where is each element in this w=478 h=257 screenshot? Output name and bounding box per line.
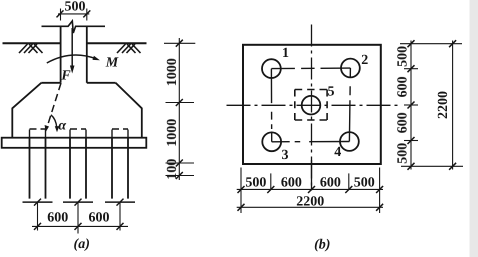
svg-text:500: 500	[65, 0, 86, 15]
svg-text:2200: 2200	[296, 194, 324, 209]
pile circle 1	[262, 59, 281, 78]
pile cap trapezoid top edge left segment	[41, 82, 60, 84]
pile 1 break slash	[34, 199, 41, 206]
pile 2 break slash	[75, 199, 82, 206]
svg-text:500: 500	[396, 143, 411, 164]
svg-text:500: 500	[396, 46, 411, 67]
ground line left	[3, 42, 61, 44]
svg-text:F: F	[60, 69, 71, 84]
vertical centerline	[311, 25, 313, 191]
ext line ground level	[164, 42, 195, 44]
bottom extension line	[401, 165, 463, 167]
right dim line 1	[410, 41, 412, 170]
pile cap trapezoid top edge right segment	[87, 82, 116, 84]
tick y102.5	[176, 99, 183, 106]
ground hatch right	[117, 44, 141, 53]
connector left (circle1 to circle3)	[270, 69, 272, 142]
extension line pile 3 center	[119, 202, 121, 230]
tick y42	[176, 40, 183, 47]
stub ext y68.7	[404, 68, 418, 70]
angle alpha arc	[51, 115, 57, 130]
svg-text:500: 500	[245, 175, 266, 190]
pile 2 bottom break line	[63, 201, 93, 203]
ground line right	[87, 42, 147, 44]
right dim line 2	[452, 41, 454, 170]
connector bottom (circle3 to circle4)	[272, 141, 350, 143]
ticks right dim line 1	[408, 40, 415, 47]
force F line	[71, 28, 73, 67]
svg-text:2: 2	[361, 53, 368, 68]
cap base slab	[2, 138, 147, 148]
angle alpha arc arrowhead	[55, 126, 60, 132]
tick pile2	[75, 223, 82, 230]
svg-text:500: 500	[354, 175, 375, 190]
column right edge	[86, 26, 88, 83]
connector right (circle2 to circle4)	[349, 68, 350, 142]
dim line 2 (b bottom 2200)	[237, 206, 383, 208]
moment M arc	[47, 55, 96, 63]
tick pile1	[34, 223, 41, 230]
tick y163	[176, 160, 183, 167]
stub ext y140.5	[404, 140, 418, 142]
svg-text:1000: 1000	[165, 58, 180, 86]
inner extension stub left	[270, 173, 272, 189]
connector top (circle1 to circle2)	[271, 67, 350, 70]
svg-text:100: 100	[165, 159, 180, 180]
horizontal centerline	[227, 104, 399, 106]
ticks right dim line 2	[449, 40, 456, 47]
pile 2 shaft	[70, 138, 86, 199]
svg-text:5: 5	[328, 84, 335, 99]
tick right of 500 dim	[83, 10, 90, 17]
svg-text:600: 600	[320, 175, 341, 190]
dim line 1 (b bottom)	[237, 188, 383, 190]
embedded pile head 1 dashed	[30, 129, 46, 138]
ext line slab	[166, 162, 195, 164]
pile 1 bottom break line	[23, 201, 53, 203]
pile circle 4	[340, 132, 359, 151]
moment M arrowhead	[93, 56, 100, 61]
pile 3 bottom break line	[105, 201, 135, 203]
dashed square around pile 5	[295, 90, 327, 121]
ticks dim line 1	[238, 186, 245, 193]
embedded pile head 2 dashed	[70, 129, 86, 138]
right outer extension	[379, 168, 381, 214]
pile 3 shaft	[112, 138, 128, 199]
svg-text:600: 600	[396, 76, 411, 97]
vertical centerline solid extension to dim line	[311, 160, 313, 190]
load spread dashed line	[47, 83, 61, 129]
column break line with zigzag	[42, 21, 106, 33]
pile 3 break slash	[117, 199, 124, 206]
bottom dims (b): left outer extension	[240, 168, 242, 214]
svg-text:3: 3	[282, 148, 289, 163]
svg-text:1: 1	[282, 46, 289, 61]
svg-text:4: 4	[334, 145, 341, 160]
svg-text:(a): (a)	[74, 237, 90, 252]
pile cap left slope and side	[12, 83, 41, 138]
load spread arrowhead	[45, 125, 49, 132]
bottom dimension line (a)	[32, 225, 128, 227]
pile cap right slope and side	[116, 83, 142, 138]
svg-text:M: M	[105, 56, 119, 71]
plan cap outline	[243, 45, 381, 164]
tick left of 500 dim	[57, 10, 64, 17]
right dim chain (a): vertical line	[178, 38, 180, 180]
svg-text:600: 600	[281, 175, 302, 190]
scan edge gray band	[470, 0, 478, 257]
force F arrowhead	[70, 66, 75, 74]
dimension line 500 (a)	[58, 13, 89, 15]
extension stub left	[60, 9, 62, 21]
stub ext y105	[404, 104, 418, 106]
embedded pile head 3 dashed	[112, 129, 128, 138]
svg-text:1000: 1000	[165, 119, 180, 147]
svg-text:600: 600	[89, 211, 110, 226]
column left edge	[60, 26, 62, 83]
svg-text:(b): (b)	[314, 237, 330, 252]
pile circle 2	[341, 59, 360, 78]
ext line mid	[166, 102, 195, 104]
extension line pile 2 center	[77, 202, 79, 233]
extension line pile 1 center	[37, 202, 39, 230]
pile circle 3	[262, 132, 281, 151]
tick y175.5	[176, 172, 183, 179]
pile circle 5 center	[302, 96, 321, 115]
ext line bottom	[166, 175, 195, 177]
svg-text:2200: 2200	[436, 91, 451, 119]
extension stub right	[86, 9, 88, 21]
pile 1 shaft	[30, 138, 46, 199]
svg-text:600: 600	[47, 211, 68, 226]
right dims (b): top extension line	[400, 43, 462, 45]
inner extension stub right	[348, 173, 350, 189]
svg-text:600: 600	[396, 112, 411, 133]
ground hatch left	[19, 44, 43, 53]
tick pile3	[117, 223, 124, 230]
svg-text:α: α	[58, 118, 66, 133]
ticks dim line 2	[238, 204, 245, 211]
